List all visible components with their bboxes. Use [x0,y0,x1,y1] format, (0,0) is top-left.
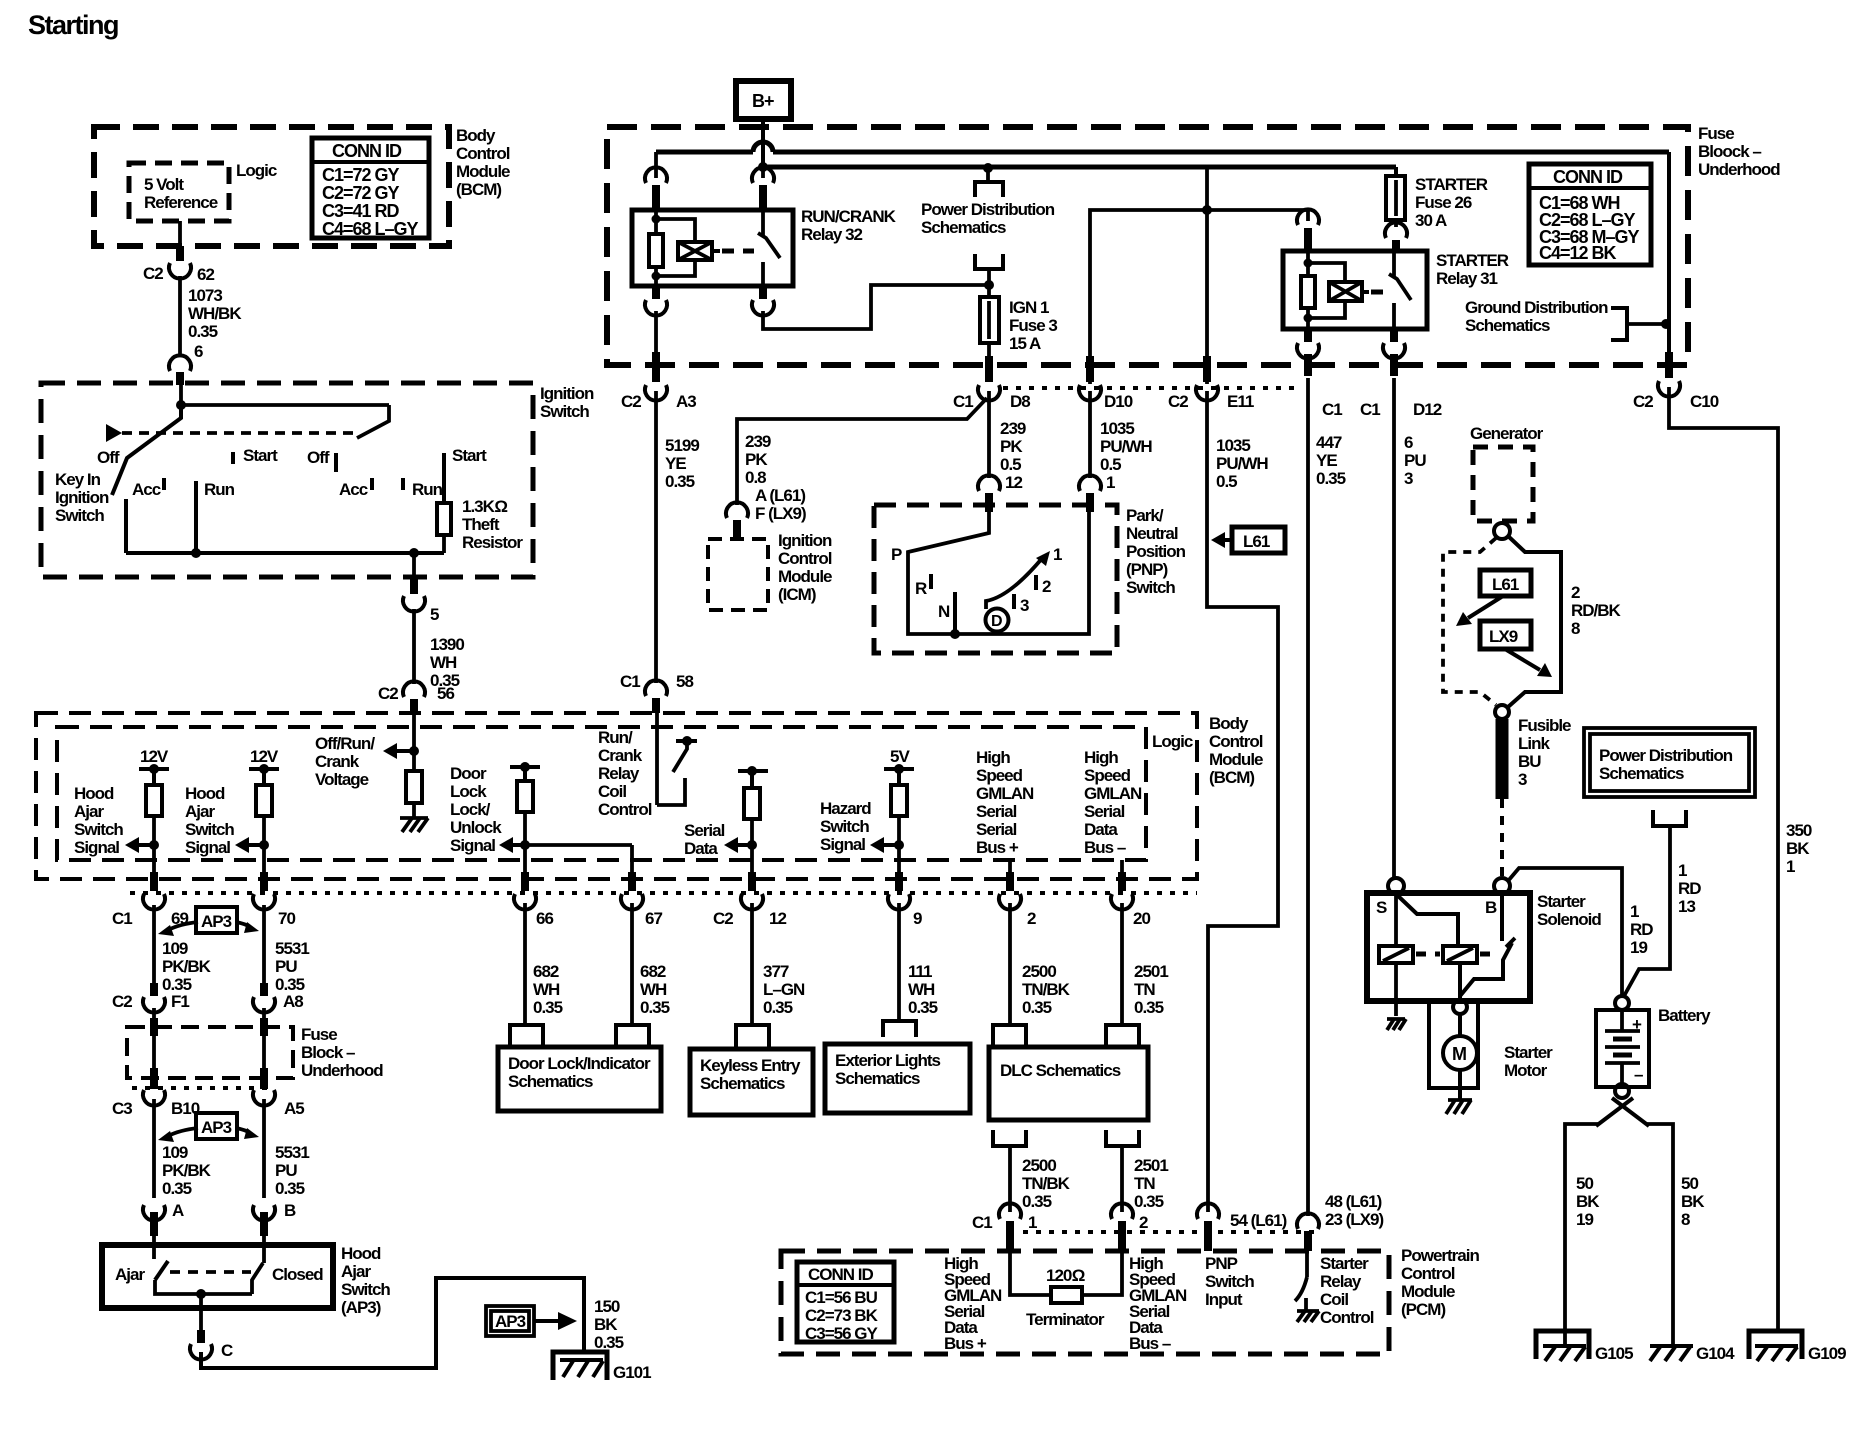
svg-text:P: P [891,545,902,564]
PNP R contact [915,574,931,598]
relay 32 solenoid X box [678,242,754,260]
starter motor M circle [1443,1014,1477,1100]
hazard node 5V [884,747,914,872]
svg-text:150: 150 [594,1297,620,1316]
svg-text:Control: Control [456,144,510,163]
svg-text:TN/BK: TN/BK [1022,980,1071,999]
svg-text:TN/BK: TN/BK [1022,1174,1071,1193]
contact Acc right [339,478,372,499]
svg-text:C2: C2 [112,992,132,1011]
wire 2500 TN/BK 0.35 upper [1010,903,1071,1025]
starter solenoid box [1367,893,1530,1001]
svg-text:RUN/CRANK: RUN/CRANK [801,207,897,226]
connector labels C2 F1 A8 [112,992,303,1011]
connector labels C1 D8 [953,392,1030,411]
svg-text:12: 12 [1005,473,1022,492]
svg-text:Reference: Reference [144,193,218,212]
LX9 option box [1480,621,1552,677]
svg-text:F1: F1 [171,992,189,1011]
svg-text:1035: 1035 [1216,436,1250,455]
wire GMLAN bus plus inside BCM [1008,860,1012,872]
svg-text:Signal: Signal [450,836,495,855]
svg-text:Power Distribution: Power Distribution [1599,746,1733,765]
svg-text:Hood: Hood [74,784,114,803]
svg-text:Starter: Starter [1504,1043,1553,1062]
svg-text:111: 111 [908,962,932,981]
svg-text:AP3: AP3 [495,1312,526,1331]
label High Speed GMLAN Serial Data Bus - PCM [1129,1254,1187,1353]
wire label 1035 PU/WH 0.5 E11 [1216,436,1268,491]
svg-text:L61: L61 [1492,575,1519,594]
svg-text:Park/: Park/ [1126,506,1164,525]
svg-text:Schematics: Schematics [835,1069,920,1088]
terminal bracket door lock 66 [510,1025,543,1047]
svg-text:0.35: 0.35 [908,998,938,1017]
connector labels C2 C10 [1633,392,1719,411]
dotted connector line fuse block bottom [1003,386,1294,390]
svg-text:Run: Run [412,480,443,499]
svg-text:YE: YE [665,454,686,473]
ignition switch box [41,383,533,577]
wire 1390 WH from ignition to BCM C2/56 [403,553,425,713]
generator L61 path solid [1508,536,1561,707]
wires through small fuse block [154,1008,264,1068]
svg-text:Fuse 26: Fuse 26 [1415,193,1472,212]
battery negative terminal circle [1615,1084,1629,1098]
svg-text:TN: TN [1134,980,1155,999]
svg-text:C2=73 BK: C2=73 BK [805,1306,879,1325]
wire label 239 PK 0.8 [745,432,771,487]
label Powertrain Control Module (PCM) [1401,1246,1479,1319]
wire 377 L-GN 0.35 [752,903,805,1025]
svg-text:Schematics: Schematics [1465,316,1550,335]
wire C10 ground bus [1658,152,1778,1331]
svg-text:Fuse 3: Fuse 3 [1009,316,1057,335]
svg-text:C3=56 GY: C3=56 GY [805,1324,879,1343]
svg-text:0.5: 0.5 [1216,472,1237,491]
svg-text:62: 62 [197,265,214,284]
BCM top-left module box [94,127,449,246]
wire label 150 BK 0.35 [594,1297,624,1352]
hazard switch signal arrow [870,837,904,853]
svg-text:A (L61): A (L61) [755,486,805,505]
power distribution schematics staple top [975,163,1003,197]
pin labels A B [172,1201,296,1220]
connector label C1 58 [620,672,693,691]
svg-text:Hood: Hood [341,1244,381,1263]
label Hazard Switch Signal [820,799,871,854]
AP3 splice box 2 [158,1113,259,1142]
svg-text:Switch: Switch [74,820,123,839]
relay 32 switch contact [758,210,780,286]
PNP position ticks 1 2 3 [1014,545,1062,615]
wire 447 YE 0.35 relay31 coil to PCM 48 [1297,378,1346,1251]
svg-text:Logic: Logic [236,161,277,180]
svg-text:BK: BK [594,1315,618,1334]
svg-text:C2=72 GY: C2=72 GY [322,183,400,203]
svg-text:5 Volt: 5 Volt [144,175,184,194]
svg-text:C2: C2 [143,264,163,283]
svg-text:C1: C1 [953,392,973,411]
svg-text:Switch: Switch [1205,1272,1254,1291]
svg-text:Ignition: Ignition [778,531,832,550]
svg-text:23 (LX9): 23 (LX9) [1325,1210,1383,1229]
solenoid output junction [1453,963,1467,1014]
L61 reference box with arrow [1211,527,1285,553]
label Hood Ajar Switch Signal 2 [185,784,234,857]
svg-text:2: 2 [1139,1213,1148,1232]
wire 2501 TN 0.35 upper [1122,903,1168,1025]
wire label 1390 WH 0.35 [430,635,464,690]
connector label C2 62 [143,264,214,284]
svg-text:377: 377 [763,962,789,981]
svg-text:(PNP): (PNP) [1126,560,1168,579]
node junction at ignition feed [176,400,186,410]
svg-text:C1: C1 [972,1213,992,1232]
title Starting [28,10,118,40]
svg-text:50: 50 [1681,1174,1698,1193]
label IGN 1 Fuse 3 15 A [1009,298,1057,353]
svg-text:0.35: 0.35 [1134,1192,1164,1211]
BCM logic module outer box [36,713,1197,879]
hood ajar pullup 1 12V [139,747,169,872]
svg-text:0.35: 0.35 [1134,998,1164,1017]
terminal bracket exterior lights [883,1021,916,1037]
wire A3 run/crank output through fuse block [645,311,667,401]
wire PNP switch input E11 to PCM 54 [1197,391,1278,1251]
svg-text:Module: Module [456,162,510,181]
svg-text:Speed: Speed [976,766,1023,785]
wire 50 BK 8 to G104 [1647,1124,1705,1347]
svg-text:D8: D8 [1010,392,1030,411]
svg-text:BU: BU [1518,752,1541,771]
svg-text:Control: Control [778,549,832,568]
svg-text:Bloock –: Bloock – [1698,142,1761,161]
terminal bracket DLC minus [1106,1025,1139,1047]
svg-text:239: 239 [1000,419,1026,438]
svg-text:F (LX9): F (LX9) [755,504,806,523]
DLC schematics box [989,1047,1148,1120]
starter solenoid terminal S circle [1388,878,1404,894]
svg-text:High: High [1084,748,1118,767]
svg-text:Ground Distribution: Ground Distribution [1465,298,1608,317]
svg-text:TN: TN [1134,1174,1155,1193]
svg-text:0.8: 0.8 [745,468,766,487]
svg-text:PU/WH: PU/WH [1216,454,1268,473]
svg-text:Fusible: Fusible [1518,716,1571,735]
wire 109 PK/BK 0.35 upper [143,905,212,1013]
svg-text:Crank: Crank [315,752,360,771]
relay 31 solenoid X box [1329,282,1392,301]
svg-text:C2: C2 [713,909,733,928]
label High Speed GMLAN Serial Serial Bus + [976,748,1034,857]
svg-text:0.35: 0.35 [665,472,695,491]
off/run/crank voltage node [383,713,419,771]
svg-text:–: – [1634,1065,1643,1084]
wire 239 PK 0.8 branch to ICM [726,398,987,539]
PNP wiper and P contact [891,507,1089,634]
starter solenoid terminal B circle [1494,878,1510,894]
svg-text:12V: 12V [250,747,279,766]
hood ajar switch signal arrow 1 [125,837,159,853]
svg-text:Underhood: Underhood [301,1061,383,1080]
svg-text:(PCM): (PCM) [1401,1300,1445,1319]
svg-text:Serial: Serial [976,802,1017,821]
svg-text:Ajar: Ajar [115,1265,145,1284]
svg-text:13: 13 [1678,897,1695,916]
svg-text:C3: C3 [112,1099,132,1118]
wire label 1035 PU/WH 0.5 pin 1 [1100,419,1152,492]
svg-text:AP3: AP3 [201,912,232,931]
label RUN/CRANK Relay 32 [801,207,897,244]
svg-text:8: 8 [1571,619,1580,638]
contact Start right wire [444,446,487,503]
svg-text:Data: Data [1084,820,1118,839]
svg-text:D10: D10 [1104,392,1133,411]
svg-text:Signal: Signal [74,838,119,857]
wire label 682 WH 0.35 pin 67 [632,903,670,1025]
label 1.3K ohm Theft Resistor [462,497,523,552]
svg-text:Schematics: Schematics [921,218,1006,237]
PNP park/neutral position switch box [874,505,1117,653]
ICM ignition control module box [708,539,768,610]
wire door lock to pin 67 [525,845,632,872]
dotted connector line BCM C1 row [130,891,1197,895]
hood ajar pullup 2 12V [249,747,279,872]
svg-text:PK: PK [745,450,768,469]
svg-text:Body: Body [1209,714,1249,733]
svg-text:682: 682 [533,962,559,981]
svg-text:0.5: 0.5 [1100,455,1121,474]
relay STARTER Relay 31 box [1283,251,1427,329]
svg-text:Body: Body [456,126,496,145]
svg-text:2: 2 [1027,909,1036,928]
svg-text:1: 1 [1106,473,1115,492]
svg-text:Switch: Switch [55,506,104,525]
dashed switch travel line [122,431,358,435]
svg-text:C2: C2 [1168,392,1188,411]
generator output terminal circle [1494,523,1510,539]
svg-text:Off: Off [97,448,120,467]
svg-text:Acc: Acc [132,480,161,499]
bus line2 from B+ junction [758,162,1396,172]
wire label 350 BK 1 [1786,821,1812,876]
svg-text:15 A: 15 A [1009,334,1041,353]
svg-text:RD: RD [1678,879,1701,898]
wire E11 ignition voltage [1196,167,1218,401]
svg-text:High: High [976,748,1010,767]
power distribution schematics staple bottom [975,254,1003,285]
contact Run left [196,480,235,553]
svg-text:447: 447 [1316,433,1342,452]
fuse STARTER Fuse 26 30A [1385,167,1407,251]
svg-text:Hazard: Hazard [820,799,871,818]
label Run/Crank Relay Coil Control [598,728,652,819]
svg-text:Ignition: Ignition [55,488,109,507]
svg-text:Block –: Block – [301,1043,355,1062]
label Off left [97,448,120,467]
svg-text:Bus +: Bus + [976,838,1019,857]
starter motor bracket [1429,1001,1478,1088]
svg-text:0.35: 0.35 [162,1179,192,1198]
svg-text:Control: Control [1209,732,1263,751]
svg-text:Acc: Acc [339,480,368,499]
svg-text:WH: WH [430,653,457,672]
svg-text:C1: C1 [1360,400,1380,419]
svg-text:G101: G101 [613,1363,651,1382]
svg-text:0.5: 0.5 [1000,455,1021,474]
svg-text:Motor: Motor [1504,1061,1548,1080]
svg-text:E11: E11 [1227,392,1254,411]
svg-text:C4=68 L–GY: C4=68 L–GY [322,219,419,239]
svg-text:D: D [991,613,1003,630]
svg-text:N: N [938,602,950,621]
generator LX9 path dashed [1443,538,1496,705]
svg-text:Resistor: Resistor [462,533,523,552]
label Door Lock Lock/Unlock Signal [450,764,502,855]
connector label D10 [1104,392,1133,411]
svg-text:8: 8 [1681,1210,1690,1229]
wire 6 PU 3 relay31 to starter solenoid S [1394,378,1426,879]
terminal bracket keyless [736,1025,769,1049]
label Ignition Switch [540,384,594,421]
wire hood switch common to C [190,1294,233,1360]
wire 1035 PU/WH 0.5 D10 to PNP [1079,391,1101,512]
hood switch contacts [115,1247,323,1299]
svg-text:2: 2 [1042,577,1051,596]
svg-text:1: 1 [1630,902,1639,921]
wire 50 BK 19 to G105 [1565,1124,1600,1347]
label STARTER Fuse 26 30 A [1415,175,1488,230]
B+ battery feed box [736,81,791,119]
svg-text:(AP3): (AP3) [341,1298,381,1317]
svg-text:GMLAN: GMLAN [1084,784,1142,803]
svg-text:3: 3 [1518,770,1527,789]
terminal bracket below PDS box [1653,810,1686,826]
svg-text:9: 9 [913,909,922,928]
relay 31 output connectors [1297,329,1405,376]
svg-text:Voltage: Voltage [315,770,369,789]
svg-text:Module: Module [1209,750,1263,769]
svg-text:Schematics: Schematics [1599,764,1684,783]
svg-text:Keyless Entry: Keyless Entry [700,1056,801,1075]
svg-text:Speed: Speed [1084,766,1131,785]
svg-text:2500: 2500 [1022,1156,1056,1175]
svg-text:Position: Position [1126,542,1186,561]
svg-text:C1=56 BU: C1=56 BU [805,1288,878,1307]
svg-text:Control: Control [598,800,652,819]
svg-text:Coil: Coil [598,782,626,801]
svg-text:Underhood: Underhood [1698,160,1780,179]
svg-text:Control: Control [1320,1308,1374,1327]
svg-text:0.35: 0.35 [1022,998,1052,1017]
terminal bracket below DLC minus [1106,1130,1139,1146]
svg-text:C1=72 GY: C1=72 GY [322,165,400,185]
svg-text:PU: PU [275,957,297,976]
svg-text:2501: 2501 [1134,1156,1168,1175]
svg-text:5531: 5531 [275,1143,309,1162]
hood ajar switch box [102,1245,333,1308]
svg-text:Input: Input [1205,1290,1243,1309]
svg-text:C10: C10 [1690,392,1719,411]
svg-text:0.35: 0.35 [188,322,218,341]
wire 1 RD 19 solenoid B to battery [1508,868,1653,996]
svg-text:Switch: Switch [341,1280,390,1299]
label Hood Ajar Switch Signal 1 [74,784,123,857]
CONN ID table fuse block [1529,164,1651,265]
svg-text:C1: C1 [112,909,132,928]
serial data arrow [724,837,757,853]
svg-text:Schematics: Schematics [508,1072,593,1091]
wire ignition internal feed [181,385,389,405]
svg-text:Relay: Relay [1320,1272,1362,1291]
wire 111 WH 0.35 [899,903,938,1022]
svg-text:Bus –: Bus – [1084,838,1126,857]
wire relay32 switch to IGN1 fuse node [763,285,989,329]
power distribution schematics box right [1584,728,1755,797]
svg-text:109: 109 [162,1143,188,1162]
svg-text:48 (L61): 48 (L61) [1325,1192,1382,1211]
svg-text:1390: 1390 [430,635,464,654]
svg-text:BK: BK [1681,1192,1705,1211]
svg-text:20: 20 [1133,909,1150,928]
svg-text:Hood: Hood [185,784,225,803]
svg-text:Relay: Relay [598,764,640,783]
ground BCM internal [400,818,428,832]
switch blade key-in left [112,407,181,495]
svg-text:BK: BK [1576,1192,1600,1211]
generator box [1473,447,1533,521]
svg-text:Starting: Starting [28,10,118,40]
svg-text:58: 58 [676,672,693,691]
PCM powertrain control module box [781,1251,1389,1354]
svg-text:Ajar: Ajar [185,802,215,821]
svg-text:PK/BK: PK/BK [162,957,212,976]
svg-text:Serial: Serial [1084,802,1125,821]
label Fuse Block - Underhood [301,1025,383,1080]
ground G101 [553,1352,651,1382]
svg-text:Battery: Battery [1658,1006,1711,1025]
contact Start left [233,446,278,465]
relay 31 coil [1301,251,1345,329]
svg-text:350: 350 [1786,821,1812,840]
connector labels 48 (L61) 23 (LX9) [1325,1192,1383,1229]
svg-text:3: 3 [1020,596,1029,615]
svg-text:PU: PU [275,1161,297,1180]
svg-text:19: 19 [1576,1210,1593,1229]
fuse block underhood small box [127,1027,293,1078]
AP3 splice box 1 [158,907,259,936]
wire 109 PK/BK 0.35 lower [143,1099,212,1221]
wire GMLAN bus minus inside BCM [1120,860,1124,872]
hood row connectors C3 B10 A5 [112,1068,304,1118]
wire 150 BK to G101 [201,1278,584,1368]
svg-text:5531: 5531 [275,939,309,958]
svg-text:2500: 2500 [1022,962,1056,981]
svg-text:Run/: Run/ [598,728,633,747]
svg-text:Terminator: Terminator [1026,1310,1105,1329]
battery positive terminal circle [1615,996,1629,1010]
svg-text:Door Lock/Indicator: Door Lock/Indicator [508,1054,651,1073]
svg-text:WH: WH [533,980,560,999]
svg-text:PK/BK: PK/BK [162,1161,212,1180]
svg-text:AP3: AP3 [201,1118,232,1137]
svg-text:B: B [1485,898,1497,917]
svg-text:Off: Off [307,448,330,467]
svg-text:Closed: Closed [272,1265,323,1284]
svg-text:CONN ID: CONN ID [332,141,402,161]
svg-text:0.35: 0.35 [594,1333,624,1352]
